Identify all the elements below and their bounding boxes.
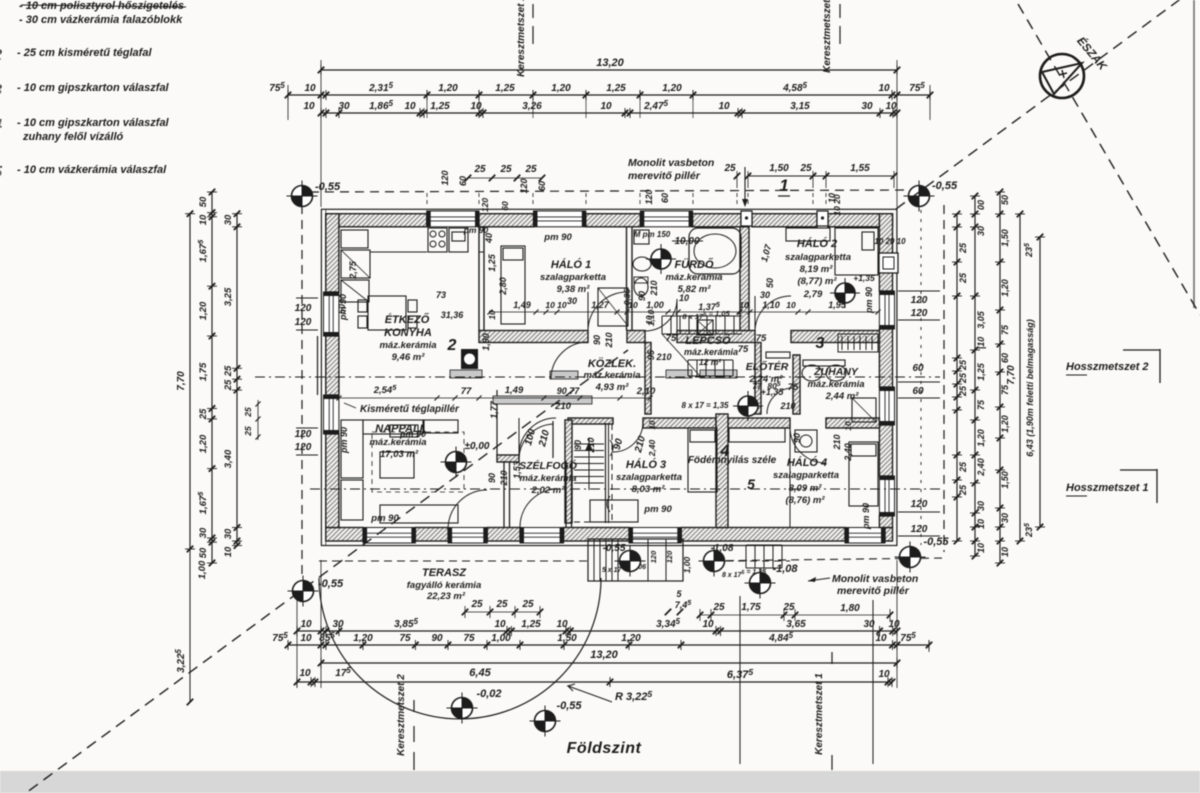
nappali cabinet bottom [380, 505, 458, 523]
zuhany fixtures [802, 365, 822, 381]
svg-text:2,02 m²: 2,02 m² [531, 485, 566, 496]
svg-text:75: 75 [976, 399, 986, 410]
svg-text:25: 25 [243, 407, 253, 418]
nappali sofa [341, 420, 363, 478]
svg-text:Hosszmetszet 1: Hosszmetszet 1 [1066, 482, 1149, 494]
halo3 cabinet [590, 500, 638, 522]
svg-text:1,50: 1,50 [557, 633, 577, 644]
svg-text:10: 10 [718, 101, 730, 112]
svg-text:1,49: 1,49 [513, 300, 531, 310]
svg-text:60: 60 [1000, 353, 1010, 363]
window halo1 top [534, 211, 586, 227]
svg-text:75: 75 [399, 633, 411, 644]
door entrance arc [520, 489, 558, 527]
svg-text:1,53: 1,53 [512, 461, 522, 479]
svg-text:17,03 m²: 17,03 m² [380, 449, 419, 460]
svg-text:10: 10 [470, 101, 482, 112]
svg-text:R 3,225: R 3,225 [615, 689, 652, 703]
svg-text:pm 90: pm 90 [399, 429, 426, 439]
svg-text:1,10: 1,10 [762, 300, 780, 310]
svg-text:- 10 cm gipszkarton válaszfal: - 10 cm gipszkarton válaszfal [17, 117, 170, 129]
svg-text:4: 4 [0, 117, 2, 134]
zuhany shower tray [852, 398, 876, 422]
svg-text:Monolit vasbeton: Monolit vasbeton [628, 157, 714, 169]
svg-text:pm 90: pm 90 [338, 294, 348, 321]
svg-text:2,10: 2,10 [636, 386, 656, 397]
svg-text:HÁLÓ 4: HÁLÓ 4 [787, 456, 827, 469]
bottom dim row C 13,20 [321, 662, 897, 664]
benchmark porch -0,55 [615, 546, 646, 577]
svg-text:3,15: 3,15 [790, 101, 810, 112]
benchmark halo2 [830, 278, 860, 308]
terrace arc R322 [319, 578, 601, 719]
svg-text:1,27: 1,27 [591, 300, 610, 310]
svg-text:1,00: 1,00 [197, 560, 208, 579]
svg-text:8 x 17 = 1,35: 8 x 17 = 1,35 [682, 401, 729, 410]
svg-text:1,50: 1,50 [1000, 229, 1010, 247]
svg-text:8,03 m²: 8,03 m² [632, 484, 666, 495]
eloter-zuhany wall [793, 355, 800, 414]
svg-text:1,75: 1,75 [198, 362, 209, 381]
svg-text:1,20: 1,20 [976, 429, 986, 447]
svg-text:1,25: 1,25 [606, 83, 626, 94]
svg-text:95: 95 [646, 349, 656, 360]
scan page edge right [1193, 0, 1195, 308]
svg-text:0,35: 0,35 [622, 288, 632, 305]
svg-text:75: 75 [463, 633, 475, 644]
svg-text:120: 120 [295, 317, 312, 328]
svg-text:fagyálló kerámia: fagyálló kerámia [407, 580, 481, 591]
svg-text:30: 30 [338, 101, 350, 112]
window konyha top [427, 211, 479, 227]
svg-text:10: 10 [878, 83, 890, 94]
halo3 bed [688, 428, 717, 492]
furdo sink [633, 257, 651, 271]
svg-text:60: 60 [537, 181, 547, 191]
door nappali terasz [448, 528, 487, 544]
halo1 bed [501, 246, 525, 324]
svg-text:10: 10 [976, 519, 986, 529]
concrete pillar top 1 [741, 211, 752, 226]
scanner gray strip at bottom [0, 771, 1200, 793]
svg-text:2,80: 2,80 [498, 277, 508, 296]
kemeny stove block [461, 349, 478, 369]
svg-text:10: 10 [304, 83, 316, 94]
top exterior wall [326, 214, 427, 227]
svg-text:210: 210 [604, 332, 614, 348]
svg-text:120: 120 [665, 550, 674, 563]
wall A top-rooms / middle [479, 331, 588, 343]
svg-text:3,40: 3,40 [223, 449, 234, 468]
benchmark bottom-left [288, 576, 319, 607]
svg-text:120: 120 [440, 170, 450, 185]
svg-text:2,44 m²: 2,44 m² [825, 391, 860, 402]
svg-text:25: 25 [521, 599, 534, 610]
svg-text:-0,55: -0,55 [318, 578, 344, 590]
svg-text:±0,00: ±0,00 [465, 441, 490, 452]
halo4 bed [849, 442, 878, 506]
svg-text:120: 120 [295, 303, 312, 314]
nappali rug dashed [372, 432, 464, 492]
window furdo top [640, 211, 692, 227]
svg-text:10: 10 [885, 101, 897, 112]
svg-text:1,00: 1,00 [682, 556, 692, 573]
svg-text:60: 60 [500, 201, 510, 211]
window halo4 right [879, 476, 894, 516]
svg-text:25: 25 [723, 163, 736, 174]
benchmark top-left -0,55 [287, 181, 318, 212]
halo4 cabinet small [795, 430, 817, 452]
svg-text:1,00: 1,00 [491, 633, 511, 644]
svg-text:210: 210 [779, 401, 795, 411]
benchmark bottom-right [895, 542, 926, 573]
svg-text:ZUHANY: ZUHANY [813, 366, 859, 378]
section dash-dot horizontal lower [310, 488, 940, 490]
window nappali left [324, 395, 339, 434]
svg-text:25: 25 [782, 602, 795, 613]
svg-text:FÜRDŐ: FÜRDŐ [674, 258, 714, 271]
benchmark arc -0,02 [447, 693, 478, 724]
svg-text:7,70: 7,70 [176, 371, 187, 391]
svg-text:12 m²: 12 m² [699, 357, 722, 367]
svg-text:120: 120 [295, 442, 312, 453]
svg-text:25: 25 [958, 242, 968, 254]
long vertical line k1 [872, 600, 874, 764]
window halo4 bottom [845, 528, 885, 544]
eloter cabinet [766, 352, 790, 358]
svg-text:Monolit vasbeton: Monolit vasbeton [832, 573, 918, 585]
svg-text:máz.kerámia: máz.kerámia [583, 370, 640, 381]
right chain A [956, 214, 958, 541]
svg-text:31,36: 31,36 [441, 310, 465, 320]
wall konyha-halo1 [478, 227, 480, 331]
entrance door bottom [520, 528, 564, 544]
left chain subdivided [211, 192, 213, 563]
window halo2 right [879, 291, 894, 329]
svg-text:25: 25 [958, 484, 968, 496]
svg-text:60: 60 [660, 193, 670, 203]
svg-text:1,25: 1,25 [495, 83, 515, 94]
lepcso stairs upper flight [662, 316, 742, 334]
szelfogo top wall [497, 455, 519, 462]
svg-text:00: 00 [976, 200, 986, 210]
svg-text:120: 120 [649, 550, 658, 563]
radiator halo2 [838, 334, 878, 352]
svg-text:75: 75 [756, 333, 767, 344]
svg-text:1,20: 1,20 [621, 633, 641, 644]
window nappali bottom [363, 528, 415, 544]
svg-text:TERASZ: TERASZ [422, 567, 467, 579]
svg-text:90: 90 [487, 473, 497, 483]
terrace dashed edge [319, 560, 590, 562]
lepcso left wall [645, 343, 651, 415]
svg-text:ÉTKEZŐ: ÉTKEZŐ [385, 313, 430, 326]
svg-text:1,00: 1,00 [646, 300, 664, 310]
svg-text:60: 60 [912, 386, 924, 397]
svg-text:210: 210 [586, 437, 596, 453]
svg-text:25: 25 [958, 272, 968, 284]
window axis drops [426, 193, 428, 207]
bottom dim row B [288, 644, 929, 646]
dashed offset line top [310, 190, 912, 192]
svg-text:30: 30 [861, 101, 873, 112]
svg-text:25: 25 [524, 164, 537, 175]
svg-text:50: 50 [198, 547, 209, 558]
furdo toilet [634, 278, 648, 296]
svg-text:75: 75 [666, 333, 677, 344]
left chain room heights [236, 214, 238, 546]
svg-text:2,40: 2,40 [647, 439, 657, 457]
svg-text:szalagparketta: szalagparketta [616, 472, 682, 483]
svg-text:30: 30 [976, 226, 986, 236]
interior dim row halo2 [739, 311, 878, 313]
svg-text:25: 25 [198, 408, 209, 420]
svg-text:30: 30 [976, 501, 986, 511]
entrance porch steps [588, 539, 683, 581]
left exterior wall [326, 214, 339, 292]
svg-text:10: 10 [679, 293, 689, 303]
right chain 6,43 [1039, 237, 1041, 527]
svg-text:30: 30 [223, 528, 234, 539]
furdo bathtub [689, 228, 741, 274]
svg-text:1,20: 1,20 [662, 83, 682, 94]
stairwell down treads [574, 438, 604, 490]
long vertical line k2 [739, 596, 741, 764]
svg-text:8,19 m²: 8,19 m² [800, 264, 834, 275]
svg-text:-0,55: -0,55 [932, 180, 958, 192]
svg-text:6,43 (1,90m feletti belmagassá: 6,43 (1,90m feletti belmagasság) [1025, 319, 1035, 457]
back steps halo4 [746, 545, 782, 568]
svg-text:Földszint: Földszint [567, 740, 642, 757]
wall szelfogo-halo3 [565, 461, 567, 528]
furdo washing machine [634, 230, 649, 244]
wall B middle / lower rooms [568, 418, 613, 424]
outer insulation outline [321, 209, 897, 545]
svg-text:pm 90: pm 90 [864, 287, 874, 314]
svg-text:9,38 m²: 9,38 m² [557, 284, 591, 295]
svg-text:120: 120 [644, 189, 654, 204]
svg-text:10: 10 [976, 543, 986, 553]
svg-text:120: 120 [519, 178, 529, 193]
svg-text:3,05: 3,05 [976, 310, 986, 329]
svg-text:30: 30 [760, 290, 770, 300]
svg-text:2,75: 2,75 [348, 260, 358, 280]
svg-text:-0,55: -0,55 [315, 181, 341, 193]
svg-text:77: 77 [461, 386, 472, 397]
svg-text:4: 4 [720, 443, 730, 460]
svg-text:1,77: 1,77 [489, 400, 499, 419]
lepcso-eloter wall [755, 343, 761, 415]
svg-text:1,20: 1,20 [198, 301, 209, 320]
door nappali-terasz arc [448, 490, 487, 527]
svg-text:25: 25 [958, 461, 968, 473]
svg-text:30: 30 [332, 619, 344, 630]
door halo2 [755, 296, 791, 330]
svg-text:4,93 m²: 4,93 m² [595, 382, 630, 393]
svg-text:120: 120 [911, 308, 928, 319]
svg-text:90: 90 [573, 440, 583, 450]
svg-text:9,46 m²: 9,46 m² [392, 352, 426, 363]
top dimension chain row1 [288, 94, 930, 96]
bottom extension lines [296, 600, 298, 688]
svg-text:90: 90 [637, 291, 647, 301]
svg-text:szalagparketta: szalagparketta [773, 470, 839, 481]
svg-text:13,20: 13,20 [590, 649, 618, 661]
bottom dim row terrace 25s [465, 611, 540, 613]
svg-text:3: 3 [0, 82, 2, 99]
svg-text:10,00: 10,00 [674, 236, 699, 247]
svg-text:10: 10 [404, 101, 416, 112]
svg-text:90: 90 [592, 335, 602, 345]
svg-text:1: 1 [779, 176, 788, 195]
konyha appliances top [428, 228, 447, 252]
svg-text:10: 10 [648, 420, 657, 429]
svg-text:Keresztmetszet 2: Keresztmetszet 2 [516, 0, 527, 77]
stairwell left wall [565, 420, 572, 523]
svg-text:HÁLÓ 1: HÁLÓ 1 [551, 258, 591, 271]
svg-text:1,95: 1,95 [828, 300, 847, 310]
svg-text:22,23 m²: 22,23 m² [426, 591, 466, 602]
window konyha left [324, 292, 339, 336]
svg-text:25: 25 [958, 385, 968, 397]
svg-text:1,75: 1,75 [741, 602, 761, 613]
svg-text:HÁLÓ 3: HÁLÓ 3 [626, 458, 666, 471]
svg-text:1,20: 1,20 [198, 434, 209, 453]
svg-text:1,80: 1,80 [840, 603, 860, 614]
svg-text:szalagparketta: szalagparketta [785, 252, 851, 263]
svg-text:7,70: 7,70 [1006, 365, 1017, 385]
svg-text:-0,55: -0,55 [556, 700, 582, 712]
svg-text:120: 120 [911, 295, 928, 306]
svg-text:10: 10 [878, 669, 890, 680]
svg-text:25: 25 [958, 372, 968, 384]
halo4 wardrobe [729, 428, 785, 442]
szelfogo door arc [519, 424, 553, 458]
svg-text:Keresztmetszet 1: Keresztmetszet 1 [814, 673, 825, 755]
boundary dashed diagonal NE [896, 0, 1190, 209]
svg-text:+1,35: +1,35 [853, 273, 875, 283]
bottom dim row A [297, 630, 897, 632]
lintel gray bars [450, 370, 482, 378]
svg-text:210: 210 [655, 352, 671, 362]
svg-text:75: 75 [738, 344, 749, 355]
svg-text:30: 30 [1000, 513, 1010, 523]
svg-text:2,79: 2,79 [803, 289, 823, 300]
svg-text:2: 2 [0, 47, 2, 64]
dashed offset left [301, 205, 303, 580]
svg-text:3,25: 3,25 [223, 287, 234, 306]
svg-text:25: 25 [712, 602, 725, 613]
slab opening dashed [572, 424, 612, 522]
svg-text:1,90: 1,90 [481, 333, 491, 351]
window zuhany right [879, 387, 894, 425]
svg-text:KONYHA: KONYHA [384, 327, 432, 339]
svg-text:30: 30 [198, 527, 209, 538]
svg-text:10 10: 10 10 [545, 300, 567, 310]
svg-text:77: 77 [752, 381, 763, 391]
svg-text:3,26: 3,26 [522, 101, 542, 112]
svg-text:szalagparketta: szalagparketta [540, 272, 606, 283]
door halo4 [790, 427, 826, 463]
svg-text:máz.kerámia: máz.kerámia [684, 347, 738, 357]
svg-text:10: 10 [600, 101, 612, 112]
svg-text:60: 60 [458, 176, 468, 186]
svg-text:3: 3 [816, 335, 825, 352]
interior dim row konyha [339, 397, 650, 399]
benchmark nappali 0,00 [441, 447, 472, 478]
svg-text:25: 25 [223, 379, 234, 391]
svg-text:10: 10 [299, 668, 311, 679]
svg-text:Kisméretű téglapillér: Kisméretű téglapillér [360, 404, 460, 415]
szelfogo left wall [503, 461, 505, 528]
concrete pillar top 2 [817, 211, 828, 226]
svg-text:210: 210 [499, 470, 509, 486]
door halo3 [613, 423, 643, 452]
svg-text:2,40: 2,40 [976, 458, 986, 477]
svg-text:Keresztmetszet 1: Keresztmetszet 1 [822, 0, 833, 73]
svg-text:1,20: 1,20 [438, 83, 458, 94]
svg-text:25: 25 [223, 365, 234, 377]
svg-text:1,25: 1,25 [976, 362, 986, 381]
svg-text:pm 90: pm 90 [543, 232, 572, 243]
boundary dashed diagonal E [1018, 4, 1200, 315]
svg-text:Födémnyilás széle: Födémnyilás széle [688, 455, 777, 466]
svg-text:10: 10 [487, 310, 497, 320]
door halo1 [588, 292, 627, 331]
corridor west edge line [496, 390, 498, 455]
svg-text:210: 210 [649, 280, 659, 296]
svg-text:- 25 cm kisméretű téglafal: - 25 cm kisméretű téglafal [17, 47, 152, 59]
svg-text:- 10 cm gipszkarton válaszfal: - 10 cm gipszkarton válaszfal [17, 82, 170, 94]
svg-text:-0,55: -0,55 [603, 543, 626, 554]
svg-text:2: 2 [447, 337, 457, 354]
door konyha-kozlek [551, 342, 588, 379]
svg-text:10: 10 [303, 101, 315, 112]
svg-text:pm 90: pm 90 [370, 513, 399, 524]
svg-text:75: 75 [788, 382, 799, 393]
nappali armchair [424, 420, 458, 433]
lepcso stairs lower treads [688, 360, 733, 376]
svg-text:Hosszmetszet 2: Hosszmetszet 2 [1066, 361, 1149, 373]
svg-text:2,40: 2,40 [843, 443, 853, 462]
svg-text:pm 90: pm 90 [643, 504, 672, 515]
svg-text:máz.kerámia: máz.kerámia [379, 340, 436, 351]
konyha counter front line [370, 251, 427, 253]
svg-text:1,20: 1,20 [1000, 415, 1010, 433]
halo2 wardrobe [786, 228, 830, 241]
svg-text:25: 25 [470, 599, 483, 610]
wall furdo-halo2 [740, 227, 749, 331]
door furdo [645, 299, 677, 331]
svg-text:1,25: 1,25 [487, 253, 497, 272]
north compass ESZAK [1040, 54, 1084, 98]
svg-text:60: 60 [912, 363, 924, 374]
svg-text:75: 75 [1000, 324, 1010, 335]
svg-text:30: 30 [223, 214, 234, 225]
svg-text:1,50: 1,50 [769, 163, 789, 174]
benchmark furdo 10,00 [646, 244, 676, 274]
top dimension chain row2 [321, 112, 897, 114]
svg-text:-0,02: -0,02 [476, 688, 501, 700]
svg-text:25: 25 [958, 359, 968, 371]
svg-text:1,25: 1,25 [521, 619, 541, 630]
svg-text:3,65: 3,65 [786, 619, 806, 630]
dashed offset right [943, 205, 945, 552]
halo1 wardrobe [598, 288, 628, 326]
svg-text:73: 73 [436, 290, 446, 300]
svg-text:120: 120 [295, 429, 312, 440]
svg-text:HÁLÓ 2: HÁLÓ 2 [797, 237, 837, 250]
